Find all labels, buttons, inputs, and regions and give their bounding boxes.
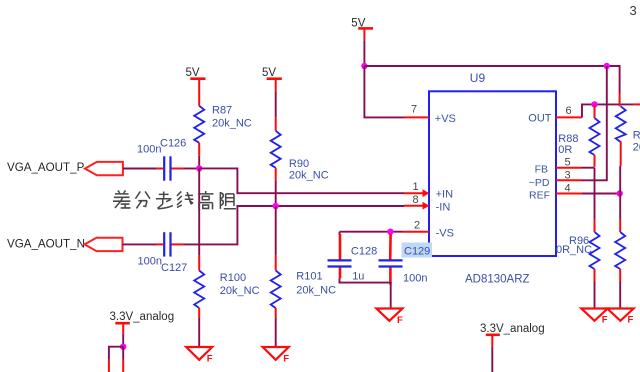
svg-text:100n: 100n (403, 272, 427, 284)
node rail to ~PD branch junction (604, 63, 610, 69)
wire C126 to +IN junction (172, 168, 200, 170)
svg-text:~PD: ~PD (529, 177, 550, 189)
svg-text:-IN: -IN (436, 201, 451, 213)
svg-text:3: 3 (630, 3, 637, 18)
wire C127 routing to pin 8 (172, 206, 405, 244)
annotation text 差分走线高阻 (113, 191, 236, 210)
capacitor C129 100n (highlighted) (379, 234, 433, 285)
svg-text:F: F (207, 353, 213, 364)
node -IN junction (273, 203, 279, 209)
wire R87 bottom to +IN junction (198, 156, 200, 169)
resistor top-right (label clipped) (616, 93, 640, 166)
resistor R90 (271, 118, 329, 182)
svg-text:-VS: -VS (436, 228, 454, 240)
pin 6 OUT (556, 105, 582, 117)
node -VS / C129 junction (387, 229, 393, 235)
svg-text:4: 4 (565, 182, 571, 194)
svg-text:OUT: OUT (528, 113, 552, 125)
svg-text:R101: R101 (296, 270, 322, 282)
pin 3 ~PD (556, 169, 582, 181)
resistor R96 0R_NC (556, 219, 600, 282)
svg-text:0R: 0R (558, 144, 572, 156)
svg-text:U9: U9 (470, 71, 486, 85)
pin 8 -IN (404, 194, 429, 210)
ground F flag (C128/C129) (376, 309, 403, 326)
svg-text:C129: C129 (404, 245, 430, 257)
wire R90 bottom to -IN junction (275, 181, 277, 206)
svg-text:VGA_AOUT_P: VGA_AOUT_P (7, 161, 85, 174)
svg-text:C126: C126 (160, 137, 186, 149)
svg-text:AD8130ARZ: AD8130ARZ (465, 274, 530, 286)
wire R96 to ground (594, 282, 596, 309)
svg-text:100n: 100n (137, 144, 161, 156)
pin 4 REF (556, 182, 582, 194)
svg-text:5: 5 (565, 157, 571, 169)
svg-text:3: 3 (565, 169, 571, 181)
power 5V symbol (feeds R90) (262, 67, 282, 91)
svg-text:R9: R9 (633, 130, 640, 142)
wire rail branch down to ~PD (606, 66, 608, 180)
wire 5V to R90 (275, 91, 277, 117)
wire rail down to +VS pin 7 (364, 66, 404, 117)
svg-text:20k_NC: 20k_NC (220, 285, 260, 297)
svg-text:1: 1 (413, 181, 419, 193)
power 5V symbol (feeds R87) (186, 67, 206, 106)
wire top-right resistor to REF node (619, 166, 621, 194)
wire 3.3V branch left down (clipped) (109, 347, 123, 372)
wire +IN node down to R100 (198, 168, 200, 255)
resistor R100 20k_NC (194, 256, 259, 318)
pin 5 FB (556, 157, 582, 169)
svg-text:5V: 5V (262, 67, 276, 79)
svg-text:VGA_AOUT_N: VGA_AOUT_N (7, 237, 85, 250)
port VGA_AOUT_N (7, 237, 123, 251)
svg-text:FB: FB (535, 164, 548, 176)
wire 5V stem to rail (363, 40, 365, 66)
svg-text:+VS: +VS (435, 113, 456, 125)
svg-text:20k_NC: 20k_NC (212, 118, 252, 130)
wire REF to right column (582, 193, 620, 195)
power 3.3V_analog symbol (left) (110, 311, 175, 334)
wire OUT net (582, 104, 640, 117)
resistor R88 0R (558, 104, 599, 166)
power 5V symbol (top, feeds rail) (351, 17, 373, 40)
wire port N to C127 (123, 243, 164, 245)
wire -IN node down to R101 (275, 206, 277, 256)
node +IN junction (196, 165, 202, 171)
resistor R87 (194, 105, 252, 156)
svg-text:C127: C127 (161, 262, 187, 274)
wire R101 to ground (275, 318, 277, 347)
svg-text:6: 6 (566, 105, 572, 117)
wire ~PD to 5V branch (582, 179, 608, 181)
resistor R101 20k_NC (271, 256, 336, 318)
wire -VS net pin2 to caps (340, 231, 404, 233)
node 5V rail junction (361, 63, 367, 69)
svg-text:20: 20 (633, 142, 640, 154)
svg-text:3.3V_analog: 3.3V_analog (110, 311, 175, 323)
resistor (bottom right, unlabelled) (615, 219, 625, 282)
svg-text:REF: REF (529, 190, 550, 202)
wire +IN routing to pin 1 (199, 168, 404, 193)
svg-text:20k_NC: 20k_NC (296, 285, 336, 297)
svg-text:R100: R100 (220, 272, 246, 284)
op-amp U9 AD8130ARZ body (429, 71, 556, 286)
pin 1 +IN (404, 181, 429, 197)
ground F flag (R101) (263, 347, 290, 364)
wire bottom-right resistor to ground (619, 282, 621, 309)
node 3.3V junction (120, 344, 126, 350)
svg-text:8: 8 (413, 194, 419, 206)
svg-text:R90: R90 (289, 158, 309, 170)
svg-text:R87: R87 (212, 105, 232, 117)
svg-text:5V: 5V (186, 67, 200, 79)
svg-text:F: F (283, 353, 289, 364)
wire 3.3V centre down (clipped) (491, 346, 493, 372)
svg-text:100n: 100n (138, 256, 162, 268)
svg-text:0R_NC: 0R_NC (556, 244, 592, 256)
wire 3.3V down (clipped) (122, 347, 124, 372)
port VGA_AOUT_P (7, 161, 123, 175)
svg-text:7: 7 (411, 104, 417, 116)
svg-text:3.3V_analog: 3.3V_analog (480, 323, 545, 335)
power 3.3V_analog symbol (bottom centre) (480, 323, 545, 346)
wire R88/FB node down to R96 (594, 168, 596, 219)
svg-text:R88: R88 (558, 133, 578, 145)
capacitor C127 100n (138, 232, 188, 274)
wire REF node down to right resistor (619, 194, 621, 220)
node OUT/R88 junction (591, 101, 597, 107)
pin 7 +VS (405, 104, 430, 118)
ground F flag (bottom right) (607, 309, 633, 326)
wire 5V rail (364, 66, 619, 93)
svg-text:2: 2 (414, 220, 420, 232)
wire R100 to ground (198, 318, 200, 347)
wire port P to C126 (123, 168, 163, 170)
svg-text:20k_NC: 20k_NC (289, 169, 329, 181)
svg-text:F: F (397, 315, 403, 326)
node REF junction (617, 190, 623, 196)
svg-text:F: F (602, 314, 608, 325)
capacitor C126 100n (137, 137, 186, 180)
ground F flag (R100) (186, 347, 213, 364)
svg-text:C128: C128 (351, 245, 377, 257)
capacitor C128 1u (328, 232, 378, 283)
svg-text:F: F (628, 314, 634, 325)
ground F flag (R96) (581, 309, 608, 326)
svg-text:1u: 1u (352, 271, 364, 283)
wire 3.3V stem to junction (122, 334, 124, 347)
wire FB to R88 bottom (582, 167, 595, 169)
pin 2 -VS (403, 220, 429, 232)
svg-text:+IN: +IN (436, 189, 453, 201)
wire caps common to ground (340, 278, 391, 308)
